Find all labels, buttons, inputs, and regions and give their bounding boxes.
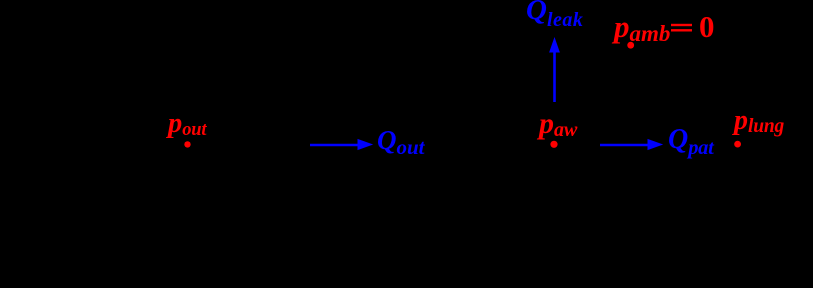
node p_aw (red dot) [550,141,557,148]
label p_lung (lung pressure node) [734,107,784,135]
equals sign of p_amb = 0 [671,24,692,32]
label p_aw (airway pressure node) [539,109,577,139]
node p_amb (red dot) [627,42,634,49]
wire: leak branch arrow (vertical, from node p_aw up toward p_amb) [549,37,560,102]
node p_lung (red dot) [734,141,741,148]
label Q_pat (patient flow) [668,126,714,154]
label Q_out (outlet flow) [377,127,425,154]
zero of p_amb = 0 [699,11,715,42]
node p_out (red dot) [184,141,190,147]
label p_out (ventilator outlet pressure node) [168,110,206,139]
label p_amb = 0 (ambient pressure) [614,11,670,42]
flow arrow Q_out (horizontal, into node p_aw branch) [310,139,373,150]
flow arrow Q_pat (horizontal, toward node p_lung) [600,139,663,150]
label Q_leak (leak flow) [526,0,583,25]
